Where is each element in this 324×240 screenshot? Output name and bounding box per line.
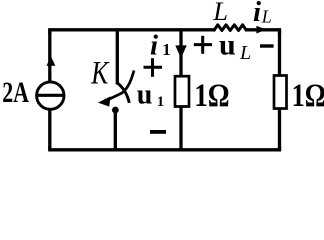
svg-text:1Ω: 1Ω <box>194 77 229 114</box>
wire: right branch upper, corner to resistor R2 <box>278 30 281 76</box>
wire: middle branch lower, resistor R1 to bottom rail <box>179 106 182 150</box>
wire: left branch lower, source to bottom rail <box>48 110 51 150</box>
plus sign of uL <box>194 36 212 54</box>
switch K motion arc <box>110 71 135 100</box>
wire: right branch lower, resistor R2 to bottom rail <box>278 108 281 150</box>
wire: switch branch lower <box>114 111 117 150</box>
current source Is (circle with bar) <box>36 82 64 109</box>
arrow: i1 current direction (down) on middle branch <box>175 45 186 58</box>
switch K blade <box>118 83 130 103</box>
wire: bottom rail <box>50 146 280 150</box>
svg-text:1: 1 <box>157 94 165 110</box>
minus sign of uL <box>260 44 274 47</box>
wire: top rail, left corner to switch junction <box>50 30 117 34</box>
svg-text:L: L <box>212 0 228 26</box>
resistor R2 body <box>274 76 287 109</box>
svg-text:L: L <box>261 7 272 27</box>
svg-text:2A: 2A <box>2 76 29 109</box>
svg-text:i: i <box>253 0 261 28</box>
svg-text:K: K <box>90 56 109 92</box>
resistor R1 body <box>175 76 189 106</box>
wire: switch branch upper <box>116 30 119 85</box>
svg-text:u: u <box>219 28 236 61</box>
svg-text:1Ω: 1Ω <box>292 78 324 113</box>
wire: top rail, switch junction to middle junction <box>117 28 181 31</box>
arrow: source current direction (up) <box>47 56 56 66</box>
plus sign of u1 <box>144 58 163 77</box>
wire: inductor right terminal to top-right corner <box>246 30 280 34</box>
wire: top rail, middle junction to inductor left terminal <box>181 28 215 31</box>
minus sign of u1 <box>150 130 166 134</box>
arrow: switch closing direction <box>98 96 111 106</box>
wire: left branch upper, top rail to source <box>48 30 51 81</box>
arrow: iL current direction (right) on top wire <box>256 26 266 34</box>
switch K fixed contact dot <box>112 107 119 114</box>
svg-text:i: i <box>150 30 158 62</box>
wire: middle branch upper, top rail to resistor R1 <box>179 30 182 77</box>
svg-text:L: L <box>239 42 251 64</box>
svg-text:1: 1 <box>162 40 171 59</box>
svg-text:u: u <box>137 79 153 110</box>
inductor L coil (zigzag humps) <box>214 25 247 31</box>
